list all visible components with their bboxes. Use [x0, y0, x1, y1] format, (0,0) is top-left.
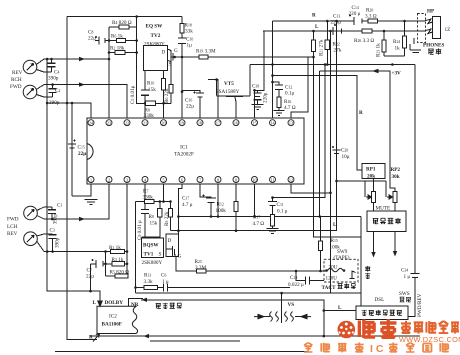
wire bus R21 down to tape line	[314, 52, 362, 238]
capacitor C14 220u	[349, 5, 363, 25]
wire C16 link	[182, 91, 200, 119]
wire left long rail to Dolby R	[67, 17, 97, 340]
wire arrow dolby L	[142, 298, 148, 302]
svg-text:REV: REV	[12, 70, 23, 76]
svg-text:390p: 390p	[49, 100, 60, 106]
label NR	[129, 299, 144, 309]
svg-text:19: 19	[180, 121, 184, 126]
svg-text:VS: VS	[288, 302, 295, 308]
wire VT5 base line pin17	[208, 80, 218, 119]
wire source R6 column	[170, 63, 172, 103]
label dolby noise reduction	[156, 303, 182, 309]
svg-text:R1 1k: R1 1k	[109, 245, 121, 251]
label TACT board	[322, 283, 356, 291]
svg-text:R6 22k: R6 22k	[164, 88, 170, 103]
wire pin8 stub	[217, 184, 219, 217]
svg-text:70U: 70U	[329, 265, 338, 271]
svg-text:0.1 μ: 0.1 μ	[277, 209, 288, 215]
wire R7 node line	[136, 201, 172, 203]
resistor R16 4.7	[277, 97, 296, 111]
svg-text:23: 23	[107, 121, 111, 126]
wire R13 C6 line	[136, 287, 291, 289]
head FWD/LCH upper2	[23, 85, 44, 99]
svg-text:7: 7	[199, 177, 201, 182]
svg-text:BQSW: BQSW	[143, 243, 159, 249]
svg-text:TACT: TACT	[322, 285, 337, 291]
resistor R22 27k	[325, 20, 342, 65]
wire RP1 feed line	[273, 76, 363, 171]
wire pin12 branch	[291, 184, 331, 193]
head REV lower2	[24, 232, 44, 252]
wire bottom border line	[55, 351, 308, 353]
wire pin1 to ground	[72, 184, 91, 196]
capacitor C11 0.1u	[268, 198, 288, 215]
svg-text:REV: REV	[7, 231, 18, 237]
head REV/RCH upper	[23, 59, 44, 74]
transistor TV2 FET symbol	[167, 48, 178, 71]
wire long line under IC pins	[178, 216, 361, 218]
capacitor C13 220u	[331, 14, 342, 36]
transistor TV1 BQSW box	[142, 238, 164, 266]
svg-text:18: 18	[198, 121, 202, 126]
wire pin13 bus	[291, 57, 308, 118]
resistor R18 33k	[180, 23, 193, 35]
svg-text:100k: 100k	[216, 208, 227, 214]
drive info circuit box	[356, 306, 408, 320]
svg-text:3.3 Ω: 3.3 Ω	[365, 14, 377, 20]
svg-text:15k: 15k	[148, 87, 156, 93]
svg-text:1 μ: 1 μ	[162, 279, 169, 285]
svg-text:R26 3.3 Ω: R26 3.3 Ω	[354, 38, 374, 44]
wire pot wiper feeds	[365, 181, 386, 197]
svg-text:R: R	[89, 335, 93, 341]
svg-text:R6 1k: R6 1k	[111, 34, 123, 40]
op-amp IC2 BA1106F dolby block	[97, 306, 138, 333]
svg-text:390p: 390p	[53, 214, 59, 225]
svg-text:R3 1k: R3 1k	[112, 257, 124, 263]
svg-text:DOLBY: DOLBY	[105, 300, 124, 306]
resistor R13 3.3k	[144, 273, 158, 290]
svg-text:22μ: 22μ	[88, 36, 96, 42]
svg-text:C5 0.01μ: C5 0.01μ	[130, 85, 136, 104]
wire bus R channel column	[171, 21, 337, 231]
wire arrow lower head1	[79, 217, 85, 221]
wire pin24 ground-side line	[47, 103, 91, 118]
svg-text:VT5: VT5	[224, 81, 234, 87]
svg-text:30k: 30k	[392, 174, 400, 180]
svg-text:11: 11	[270, 177, 274, 182]
svg-text:10: 10	[252, 177, 256, 182]
wire drive box L line	[324, 310, 356, 312]
resistor R8 15k	[149, 209, 163, 227]
svg-text:220μ: 220μ	[331, 20, 342, 26]
resistor R3 1k	[112, 257, 125, 266]
svg-text:3.3M: 3.3M	[195, 265, 206, 271]
svg-text:RP2: RP2	[391, 167, 401, 173]
wire pin21 C5 column	[144, 71, 146, 119]
wire arrow head2	[79, 82, 85, 86]
svg-text:TV2: TV2	[151, 33, 161, 39]
pot element RP1	[366, 192, 376, 212]
wire C18 branch	[255, 90, 258, 93]
svg-text:3: 3	[126, 177, 128, 182]
wire gate line TV2 to bus	[172, 56, 314, 58]
wire right supply column C34	[414, 65, 416, 274]
resistor R2 18k	[109, 46, 137, 55]
svg-text:RP1: RP1	[366, 167, 376, 173]
svg-text:+3V: +3V	[392, 71, 402, 77]
wire arrow head1	[79, 57, 85, 61]
svg-text:16: 16	[234, 121, 238, 126]
wire +3V main rail	[250, 64, 415, 66]
wire R5 line	[106, 275, 129, 277]
svg-text:4.7 μ: 4.7 μ	[182, 202, 193, 208]
capacitor C12 0.1u	[275, 85, 294, 98]
wire pin6 drain column	[178, 184, 182, 234]
wire R15 to switch	[321, 270, 327, 272]
svg-text:10μ: 10μ	[342, 154, 350, 160]
wire pin7 C17 link	[200, 184, 211, 217]
switch TACT board dashed box	[324, 259, 358, 282]
resistor R6 22k vertical	[164, 84, 173, 103]
svg-text:1: 1	[90, 177, 92, 182]
svg-text:330k: 330k	[143, 195, 154, 201]
watermark medium characters	[401, 321, 459, 334]
wire pin10 stub	[254, 184, 256, 217]
capacitor C18 220u	[252, 84, 269, 105]
svg-text:R21 27k: R21 27k	[319, 39, 325, 56]
wire C7 drop	[90, 264, 92, 291]
svg-text:33k: 33k	[185, 29, 193, 35]
wire R9 route	[170, 202, 172, 231]
resistor R5 820	[110, 270, 130, 279]
wire R3 C7 line	[91, 263, 128, 265]
resistor R6 1k	[109, 34, 137, 43]
wire lower head1 line to pin2	[44, 184, 109, 219]
capacitor C10 1u	[178, 37, 193, 49]
svg-text:2SA1588Y: 2SA1588Y	[216, 89, 240, 95]
wire top feedback rail	[67, 16, 182, 18]
svg-text:LCH: LCH	[7, 224, 18, 230]
svg-text:220μ: 220μ	[263, 92, 269, 103]
transistor VT5 2SA1588Y	[216, 81, 250, 118]
wire bus L channel column	[330, 31, 332, 293]
wire left rail of lower section	[135, 202, 137, 294]
ground R17	[267, 229, 279, 234]
wire bus to R15 top line	[319, 71, 321, 217]
resistor R12 100k	[216, 202, 239, 215]
svg-text:390p: 390p	[48, 76, 59, 82]
muting circuit box	[367, 211, 406, 232]
resistor R26 3.3 L line	[333, 29, 374, 44]
svg-text:R: R	[359, 110, 363, 116]
capacitor C5 0.01u	[130, 85, 149, 104]
resistor R15 100k	[318, 238, 340, 251]
svg-text:8: 8	[217, 177, 219, 182]
svg-text:R23 1k: R23 1k	[376, 43, 382, 57]
wire R8 route	[142, 202, 160, 239]
svg-text:R2 18k: R2 18k	[110, 46, 125, 52]
wire arrow R into dolby	[93, 334, 100, 342]
wire pin3 column	[126, 184, 128, 276]
svg-text:TV1: TV1	[144, 252, 154, 258]
head FWD/LCH lower	[24, 206, 44, 220]
svg-text:22μ: 22μ	[86, 274, 94, 280]
wire C15 column	[71, 103, 73, 196]
svg-text:220 μ: 220 μ	[349, 11, 361, 17]
svg-text:120U: 120U	[326, 276, 338, 282]
capacitor C8 22u	[88, 30, 109, 45]
svg-text:17: 17	[216, 121, 220, 126]
svg-text:13: 13	[289, 121, 293, 126]
wire left signal rail to Dolby L	[47, 59, 100, 305]
wire pin14 column	[272, 21, 274, 118]
wire divider left rail	[105, 252, 107, 277]
svg-text:4.7 Ω: 4.7 Ω	[253, 221, 265, 227]
resistor R4 820	[109, 20, 137, 29]
transistor TV2 EQ SW box	[144, 24, 168, 71]
wire head2 line to pin22	[44, 85, 127, 118]
capacitor C19 0.022u	[288, 275, 310, 288]
svg-text:L: L	[93, 300, 97, 306]
svg-text:D: D	[162, 50, 166, 56]
svg-text:IC1: IC1	[180, 145, 188, 151]
wire dolby L out line	[141, 300, 324, 336]
svg-text:15k: 15k	[150, 221, 158, 227]
wire R18 C10 column pin19	[181, 17, 183, 119]
wire L line column	[255, 31, 265, 90]
wire arrow dolby R	[144, 334, 150, 338]
svg-text:DSL: DSL	[375, 297, 385, 303]
svg-text:22: 22	[125, 121, 129, 126]
switch VS leaf right	[285, 312, 301, 322]
watermark bottom slogan	[304, 343, 449, 355]
label SWS switch	[399, 291, 411, 302]
transistor TV1 FET symbol box	[166, 234, 182, 260]
IC1 top pins 24..13	[88, 120, 294, 126]
svg-text:FWD: FWD	[7, 217, 19, 223]
svg-text:PHONES: PHONES	[423, 43, 444, 49]
svg-text:2: 2	[108, 177, 110, 182]
label 耳机	[428, 48, 441, 54]
capacitor C3 390p	[44, 228, 61, 252]
wire lower return line	[150, 340, 240, 342]
svg-text:G: G	[174, 48, 178, 54]
svg-text:15: 15	[252, 121, 256, 126]
resistor R7 330k	[143, 189, 155, 204]
ground phones	[384, 38, 421, 56]
wire arrow L into dolby	[98, 297, 102, 306]
switch VS leaf left	[264, 293, 282, 323]
svg-text:L: L	[333, 222, 337, 228]
svg-text:2SK880Y: 2SK880Y	[142, 260, 163, 266]
capacitor C20 10u	[332, 146, 350, 160]
svg-text:1μ: 1μ	[187, 43, 193, 49]
resistor R17 4.7	[253, 209, 275, 229]
wire pin5 stub	[163, 184, 165, 202]
svg-text:L: L	[338, 305, 342, 311]
svg-text:IC2: IC2	[109, 314, 117, 320]
resistor R25 3.3M	[195, 259, 207, 273]
svg-text:22μ: 22μ	[186, 104, 194, 110]
svg-text:G: G	[178, 254, 182, 260]
wire C19 feed	[296, 271, 324, 281]
capacitor C16 22u	[185, 92, 204, 110]
wire dolby R out line	[91, 335, 421, 337]
ground pin1	[85, 200, 98, 205]
svg-text:S: S	[159, 252, 162, 258]
svg-text:R9 22k: R9 22k	[164, 211, 170, 226]
capacitor C17 4.7u	[182, 195, 216, 209]
resistor R8 330k	[137, 101, 164, 119]
svg-text:D: D	[168, 238, 172, 244]
ground R16	[274, 111, 285, 116]
wire tape head column	[360, 217, 362, 306]
svg-text:NR: NR	[131, 302, 139, 308]
svg-text:22μ: 22μ	[78, 151, 86, 157]
potentiometer RP2 30k	[391, 167, 401, 180]
svg-text:L: L	[315, 24, 319, 30]
watermark big brand characters	[359, 319, 396, 338]
wire EQ divider right rail	[137, 17, 171, 104]
resistor R24 1k	[393, 21, 407, 52]
capacitor C1 390p	[44, 203, 62, 225]
resistor R10 15k	[147, 79, 166, 94]
svg-text:I C: I C	[370, 343, 384, 355]
svg-text:HP: HP	[427, 9, 435, 15]
svg-text:9: 9	[235, 177, 237, 182]
capacitor C7 22u	[86, 259, 103, 280]
resistor R23 1k	[376, 31, 387, 57]
wire C12 branch	[273, 82, 280, 85]
wire L line to phones	[263, 30, 424, 32]
svg-text:R4 820 Ω: R4 820 Ω	[112, 20, 132, 26]
capacitor C15 22u	[68, 103, 86, 196]
wire pin4 column C9	[144, 184, 146, 238]
svg-text:6: 6	[181, 177, 183, 182]
svg-text:BA1106F: BA1106F	[102, 322, 122, 328]
wire VT5 emitter column	[249, 65, 251, 97]
pot element RP2	[387, 192, 397, 212]
svg-text:21: 21	[143, 121, 147, 126]
svg-text:S: S	[169, 62, 172, 68]
capacitor C4 390p	[44, 58, 59, 82]
resistor R19 3.3M	[196, 49, 216, 60]
svg-text:3.3k: 3.3k	[144, 279, 153, 285]
IC1 bottom pins 1..12	[88, 177, 294, 183]
wire pin15 column	[254, 90, 256, 118]
wire arrow +3V	[372, 69, 379, 73]
svg-text:FWD: FWD	[10, 84, 22, 90]
svg-text:27k: 27k	[334, 48, 342, 54]
svg-text:1k: 1k	[395, 46, 401, 52]
wire muting box outputs	[371, 232, 397, 258]
svg-text:TA2002F: TA2002F	[174, 152, 194, 158]
wire bus pin11 branch	[273, 65, 326, 198]
svg-text:EQ SW: EQ SW	[146, 24, 164, 30]
svg-text:RCH: RCH	[11, 77, 22, 83]
svg-text:390p: 390p	[55, 237, 61, 248]
resistor R1 1k	[109, 245, 125, 254]
svg-text:1Z: 1Z	[445, 27, 451, 33]
wire pin20 R10 column	[163, 71, 165, 119]
wire arrow VS left	[254, 314, 264, 318]
headphone jack HP	[418, 9, 451, 49]
svg-text:20: 20	[161, 121, 165, 126]
capacitor C9 0.01u	[137, 210, 149, 241]
resistor R20 3.3	[365, 8, 378, 24]
resistor R21 27k	[311, 30, 324, 56]
svg-text:12: 12	[289, 177, 293, 182]
svg-text:R19 3.3M: R19 3.3M	[196, 49, 216, 55]
watermark logo circle	[338, 321, 356, 339]
svg-text:R: R	[312, 13, 316, 19]
potentiometer RP1 20k	[362, 164, 385, 192]
svg-text:R5 820 Ω: R5 820 Ω	[110, 270, 130, 276]
wire pin23 EQ divider rail	[108, 27, 110, 118]
svg-text:0.1μ: 0.1μ	[285, 91, 294, 97]
svg-text:0.022 μ: 0.022 μ	[288, 282, 304, 288]
wire R line to phones	[273, 20, 425, 22]
wire lower head2 line R1	[44, 251, 127, 253]
resistor R9 22k	[164, 209, 173, 227]
wire R15 column	[320, 217, 322, 272]
wire head1 line to pin23	[44, 58, 109, 60]
op-amp IC1 TA2002F body	[87, 118, 304, 184]
wire +3V arrow line	[320, 71, 396, 192]
wire pot feed line	[337, 180, 387, 182]
svg-text:PWD/REV: PWD/REV	[417, 293, 423, 317]
wire lower long line	[136, 292, 362, 294]
label tape	[365, 266, 370, 279]
svg-text:C9 0.01 μ: C9 0.01 μ	[137, 220, 143, 240]
wire muting line R25	[176, 255, 321, 271]
capacitor C34 1u	[401, 268, 420, 317]
wire arrow VS right	[301, 314, 311, 318]
ground C18	[252, 105, 264, 110]
wire pin9 R12 column	[235, 184, 237, 231]
svg-text:5: 5	[162, 177, 164, 182]
svg-text:1 μ: 1 μ	[404, 274, 411, 280]
node rail junctions	[46, 102, 91, 264]
capacitor C2 390p	[44, 83, 60, 106]
capacitor C6 1u	[161, 273, 169, 292]
svg-text:4.7 Ω: 4.7 Ω	[284, 105, 296, 111]
svg-text:SWS: SWS	[399, 291, 410, 297]
